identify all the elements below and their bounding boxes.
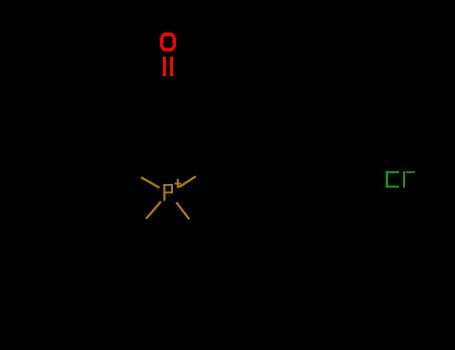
atom Cl (chloride label) [386, 171, 405, 187]
bond C=O (double bond, oxygen-colored half) [163, 57, 173, 76]
bond P to ring carbon (upper right stub) [179, 176, 196, 187]
atom O (carbonyl oxygen label) [162, 34, 175, 50]
atom P (phosphonium label) [163, 184, 173, 201]
charge + on P [175, 179, 181, 188]
bond P to substituent (lower left stub) [146, 202, 161, 219]
charge - on Cl [406, 171, 415, 173]
bond P to ring carbon (upper left stub) [141, 177, 160, 187]
bond P to substituent (lower right stub) [176, 202, 189, 219]
